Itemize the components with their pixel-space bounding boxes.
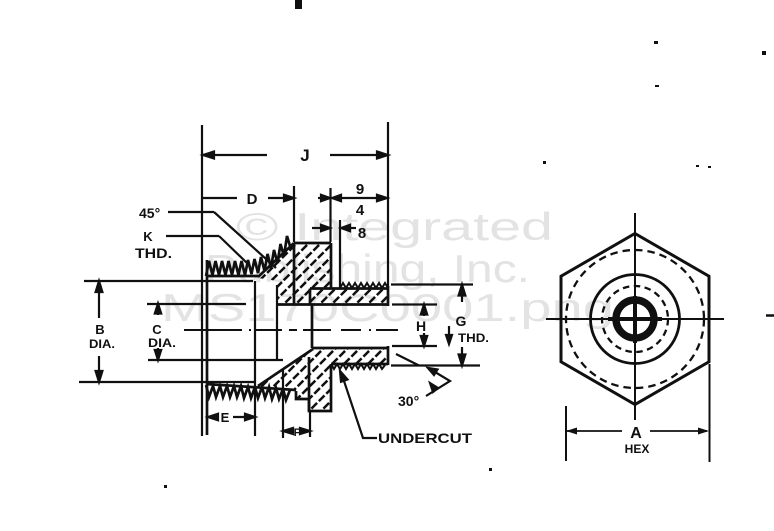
- A dimension line: [567, 430, 707, 432]
- thick cross in bore: [608, 317, 662, 321]
- svg-text:F: F: [294, 427, 301, 439]
- bore step vertical line x=277: [276, 285, 278, 360]
- centerline left view: [184, 329, 398, 331]
- svg-text:45°: 45°: [139, 205, 160, 221]
- svg-text:8: 8: [358, 225, 366, 242]
- B extension lines: [84, 280, 253, 282]
- extension line groove right: [339, 220, 341, 288]
- specks: [295, 0, 302, 9]
- extension line hex right: [329, 188, 331, 242]
- svg-text:D: D: [247, 191, 258, 208]
- H dimension: [421, 305, 427, 347]
- 45 deg leader: [168, 212, 276, 268]
- H extension lines: [392, 303, 437, 305]
- section boundary diagonal bottom: [258, 349, 313, 386]
- svg-text:DIA.: DIA.: [89, 337, 115, 351]
- hex top: [294, 242, 331, 245]
- bore ring: [616, 300, 654, 338]
- B DIA dimension: [96, 281, 103, 382]
- E dimension: [208, 414, 255, 420]
- hex right face top: [330, 243, 333, 288]
- undercut leader: [340, 371, 377, 438]
- F dimension: [283, 370, 310, 438]
- right face upper segment: [387, 286, 390, 306]
- bore top line: [277, 303, 387, 306]
- C DIA dimension: [155, 304, 161, 361]
- svg-text:B: B: [95, 322, 104, 337]
- hatch bottom region: [172, 344, 472, 416]
- svg-text:G: G: [456, 313, 467, 329]
- stub wall top line: [310, 287, 388, 290]
- 30 deg callout lines: [396, 354, 450, 396]
- undercut lobe left wall: [308, 357, 311, 411]
- top thread zigzag: [206, 236, 290, 276]
- stub wall left edge: [309, 289, 312, 305]
- K THD leader: [166, 236, 247, 263]
- svg-text:HEX: HEX: [625, 442, 650, 456]
- inner dashed circle: [602, 286, 668, 352]
- svg-text:C: C: [152, 322, 162, 337]
- C extension lines: [147, 303, 246, 305]
- outer dashed circle: [566, 250, 704, 388]
- svg-text:THD.: THD.: [135, 245, 172, 261]
- svg-text:E: E: [221, 410, 230, 425]
- bore left wall: [311, 305, 314, 349]
- solid circle: [591, 275, 680, 364]
- E/bore step vertical line: [254, 281, 256, 436]
- left view: extension line right (J): [387, 122, 389, 288]
- dimension J line: [203, 152, 388, 159]
- top thread root line: [206, 275, 258, 278]
- bore bottom line: [312, 347, 387, 350]
- small dimension row (groove): [312, 225, 356, 231]
- hexagon: [561, 234, 709, 405]
- watermark: [161, 206, 614, 330]
- bottom step outline: [296, 364, 331, 411]
- svg-text:A: A: [630, 425, 642, 442]
- svg-text:© Integrated: © Integrated: [236, 206, 553, 249]
- G dimension: [446, 285, 465, 366]
- svg-text:DIA.: DIA.: [148, 336, 176, 350]
- extension line hex left: [293, 186, 295, 242]
- svg-text:4: 4: [356, 202, 365, 219]
- stub top thread zigzag: [340, 283, 388, 288]
- dimension D row: [202, 195, 387, 201]
- A dimension extension lines: [565, 406, 567, 461]
- svg-text:UNDERCUT: UNDERCUT: [378, 430, 473, 446]
- bottom thread zigzag: [206, 385, 290, 400]
- stub bottom thread zigzag: [331, 364, 385, 369]
- part left face: [206, 260, 209, 435]
- svg-text:30°: 30°: [398, 393, 419, 409]
- hex vertical centerline: [634, 213, 636, 420]
- svg-text:J: J: [300, 146, 309, 165]
- hex left face: [293, 243, 296, 304]
- hex horizontal centerline: [546, 318, 724, 320]
- svg-text:K: K: [143, 229, 153, 244]
- chamfer edge: [258, 243, 294, 277]
- svg-text:H: H: [416, 318, 426, 334]
- right face lower segment: [387, 346, 390, 365]
- svg-text:THD.: THD.: [458, 331, 489, 345]
- left view: extension line left (J/D): [201, 125, 203, 436]
- right edge dash: [766, 314, 774, 317]
- bottom thread root line: [206, 384, 296, 390]
- stub bottom root line: [331, 363, 388, 366]
- svg-text:9: 9: [356, 181, 364, 198]
- G extension lines: [391, 283, 473, 285]
